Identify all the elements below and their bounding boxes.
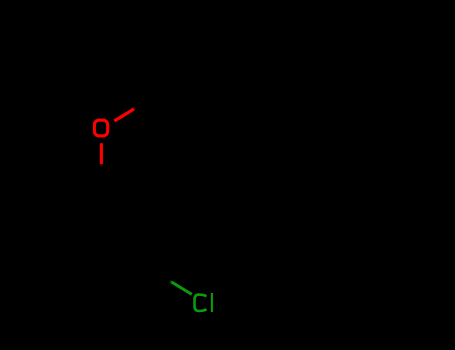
- wire: faded tip of C-Cl bond: [170, 280, 171, 283]
- bond O-CH3 red vertical: [100, 143, 103, 164]
- bond C-Cl green diagonal: [172, 282, 192, 294]
- atom Cl : letter l: [211, 293, 213, 312]
- wire: faded tip of O-CH3 bond: [100, 164, 102, 166]
- wire: faded tip of O-aryl bond: [134, 107, 135, 110]
- atom O (methoxy oxygen): [94, 120, 107, 136]
- wire: substituent chain upper right: [201, 48, 289, 70]
- bond O-C(aryl) red diagonal: [114, 109, 134, 121]
- wire: chloroalkyl chain down to Cl carbon: [171, 108, 202, 281]
- atom Cl : letter C: [195, 295, 207, 311]
- benzene ring (black skeleton, invisible on black): [113, 32, 201, 108]
